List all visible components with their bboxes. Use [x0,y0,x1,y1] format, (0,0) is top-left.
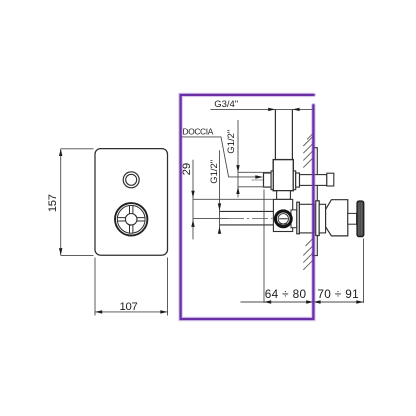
bottom dimension extension right (knob face) [363,239,365,303]
dimension 107 arrow right [160,310,167,313]
dimension G3/4 line [210,108,313,110]
diverter slot [279,219,288,225]
right spout pipe [300,175,327,186]
arrow 64-80 left [264,300,271,303]
upper axis centerline [252,179,300,181]
wheel knob rim inner circle [117,205,145,233]
dimension 157 extension line bottom [61,254,94,256]
dimension 107 extension line left [94,258,96,316]
knob knurl highlights [359,203,362,235]
mounting flange [297,202,300,234]
valve body main block [273,160,293,191]
escutcheon plate [316,201,320,236]
left collar [271,171,273,190]
tapered cap cylinder [326,200,348,236]
dimension 157 line [60,149,62,256]
hub block [273,199,292,231]
plate (front view rounded rectangle) [95,149,168,256]
svg-text:157: 157 [47,194,59,212]
stem [348,213,357,224]
purple highlight wall-plane frame [181,95,314,319]
right adapter [296,173,300,187]
DOCCIA leader arrow [255,175,263,179]
diverter inner circle [278,214,288,224]
lower axis centerline (dash-dot) [228,218,273,220]
wheel knob outer circle [115,203,147,235]
neck below body [277,191,291,200]
dimension G3/4 arrow left-pointing [292,108,299,111]
wheel knob spoke south [130,225,133,233]
svg-text:107: 107 [120,301,138,313]
arrow 70-91 left [313,300,320,303]
button inner circle [126,174,137,185]
svg-text:G1/2": G1/2" [209,160,220,184]
button outer circle [123,172,139,188]
top supply pipe G3/4 [275,109,292,159]
dimension 29 line upper tail [192,160,194,240]
svg-text:29: 29 [181,163,193,176]
G1/2 left pointer line upper [219,150,221,234]
G1/2 left arrow down [218,203,221,210]
sleeve [319,204,325,233]
lower-left inlet pipe [220,211,275,225]
dimension 157 arrow up [59,149,62,156]
left port G1/2 [264,173,272,187]
wheel knob spoke east [137,218,145,221]
dimension 107 arrow left [95,310,102,313]
svg-text:G3/4": G3/4" [214,99,238,110]
dimension 157 extension line top [61,148,94,150]
dimension 29 arrow up [191,220,194,227]
G1/2 right extension line port bottom [238,186,271,188]
dimension 157 arrow down [59,248,62,255]
right spout end cap [327,173,334,186]
svg-text:DOCCIA: DOCCIA [183,126,214,136]
wheel knob spoke west [117,218,125,221]
wall hatching upper [303,133,313,168]
dimension G3/4 arrow right-pointing [268,108,275,111]
G1/2 right pointer line upper [237,120,239,198]
svg-text:64 ÷ 80: 64 ÷ 80 [265,287,307,301]
dimension 107 extension line right [167,258,169,316]
G1/2 right extension line port top [238,171,271,173]
svg-text:G1/2": G1/2" [226,130,237,154]
cartridge body through wall [299,204,314,233]
wall line with end ticks [312,148,317,256]
purple highlight wall-plane frame halo [181,95,314,319]
knurled knob [357,201,364,237]
DOCCIA leader line [181,137,257,177]
wall hatching lower [303,238,313,270]
bottom dimension extension left (port face) [263,190,265,303]
G1/2 left arrow up [218,227,221,234]
dimension 107 line [95,311,168,313]
wheel knob hub circle [125,214,137,226]
arrow 64-80 right [306,300,313,303]
bottom dimension line [241,301,364,303]
diverter cap ring (dark circle) [275,211,291,227]
G1/2 right arrow down [236,165,239,172]
dimension 29 arrow down [191,191,194,198]
connector throat [291,210,297,228]
dimension 29 extension lower (to pipe axis) [193,218,228,220]
arrow 70-91 right [356,300,363,303]
right collar [293,171,295,190]
G1/2 right arrow up [236,187,239,194]
svg-text:70 ÷ 91: 70 ÷ 91 [317,287,359,301]
wheel knob spoke north [130,206,133,214]
dimension 29 extension upper [193,198,273,200]
